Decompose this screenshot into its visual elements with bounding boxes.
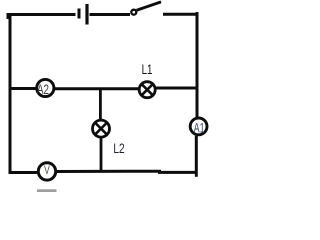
switch S1 blade (open) [137,2,161,10]
wire L2 branch upper (node to lamp) [99,89,102,120]
wire left vertical rail [9,14,12,175]
wire switch to top-right corner [163,13,199,16]
svg-text:A2: A2 [37,82,49,97]
lamp L1 cross stroke 2 [141,83,154,96]
svg-text:V: V [44,164,50,177]
svg-text:A1: A1 [194,121,205,136]
svg-text:L1: L1 [142,61,153,77]
wire middle row: A2 to L1 (passes L2 branch node) [54,87,139,90]
svg-text:L2: L2 [113,140,124,156]
wire top-left horizontal to battery [7,15,76,20]
voltmeter V circle [38,163,55,180]
wire right vertical rail upper (corner to A1) [196,12,199,117]
wire L2 branch lower (lamp to bottom wire) [100,138,103,172]
lamp L2 cross stroke 1 [94,122,107,135]
battery cell: long positive plate [85,4,88,25]
gray underline marker below voltmeter [37,189,57,192]
wire middle row: left rail to A2 [9,87,37,90]
lamp L1 cross stroke 1 [141,83,154,96]
lamp L2 circle [93,120,110,137]
ammeter A2 circle [37,79,54,96]
lamp L1 circle [139,82,155,98]
switch S1 pivot circle [131,10,136,15]
battery cell: short negative plate [78,9,81,19]
wire right vertical rail lower (A1 to bottom wire) [195,136,198,177]
wire battery to switch [90,13,131,16]
wire bottom row: voltmeter to right rail [56,171,197,172]
wire middle row: L1 to right rail [156,87,197,90]
lamp L2 cross stroke 2 [94,122,107,135]
wire bottom row: left rail to voltmeter [9,171,38,174]
ammeter A1 circle [190,118,207,135]
